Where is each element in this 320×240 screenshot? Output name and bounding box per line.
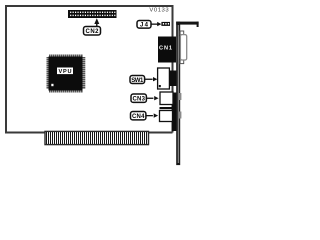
- black column between CN3/CN4 and bracket: [172, 93, 177, 132]
- switch SW1 body: [158, 68, 177, 89]
- svg-text:J4: J4: [140, 23, 149, 29]
- svg-text:V0133: V0133: [149, 7, 169, 13]
- label SW1 callout: [130, 76, 157, 84]
- svg-text:CN3: CN3: [132, 97, 145, 103]
- card outline: [6, 6, 173, 133]
- D-sub video connector on bracket: [180, 31, 187, 64]
- svg-text:CN4: CN4: [132, 114, 145, 120]
- label CN3 callout: [131, 94, 159, 103]
- connector CN4 body (RCA jack): [160, 111, 182, 122]
- wire bottom edge: [5, 132, 173, 134]
- svg-text:SW1: SW1: [131, 78, 144, 84]
- bar between CN3 and CN4: [160, 107, 174, 109]
- connector CN3 body (RCA jack): [160, 92, 181, 105]
- label CN2 callout: [84, 18, 101, 35]
- svg-text:CN1: CN1: [159, 46, 172, 52]
- svg-text:VPU: VPU: [59, 69, 72, 75]
- label J4 callout: [137, 21, 161, 29]
- svg-text:CN2: CN2: [86, 29, 100, 35]
- label CN4 callout: [131, 112, 159, 121]
- chip VPU (QFP): [47, 55, 86, 93]
- jumper J4: [161, 22, 170, 26]
- connector CN2 (pin header): [68, 10, 117, 18]
- edge connector (ISA bus fingers): [45, 131, 149, 144]
- connector CN1 (feature connector body): [158, 37, 176, 63]
- bracket: [176, 22, 198, 166]
